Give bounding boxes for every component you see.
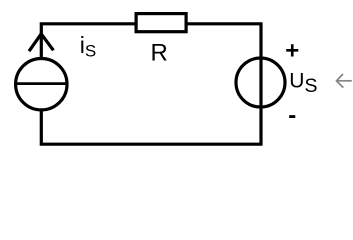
svg-text:-: -: [288, 102, 296, 129]
svg-text:R: R: [151, 40, 168, 67]
svg-text:+: +: [285, 38, 299, 65]
